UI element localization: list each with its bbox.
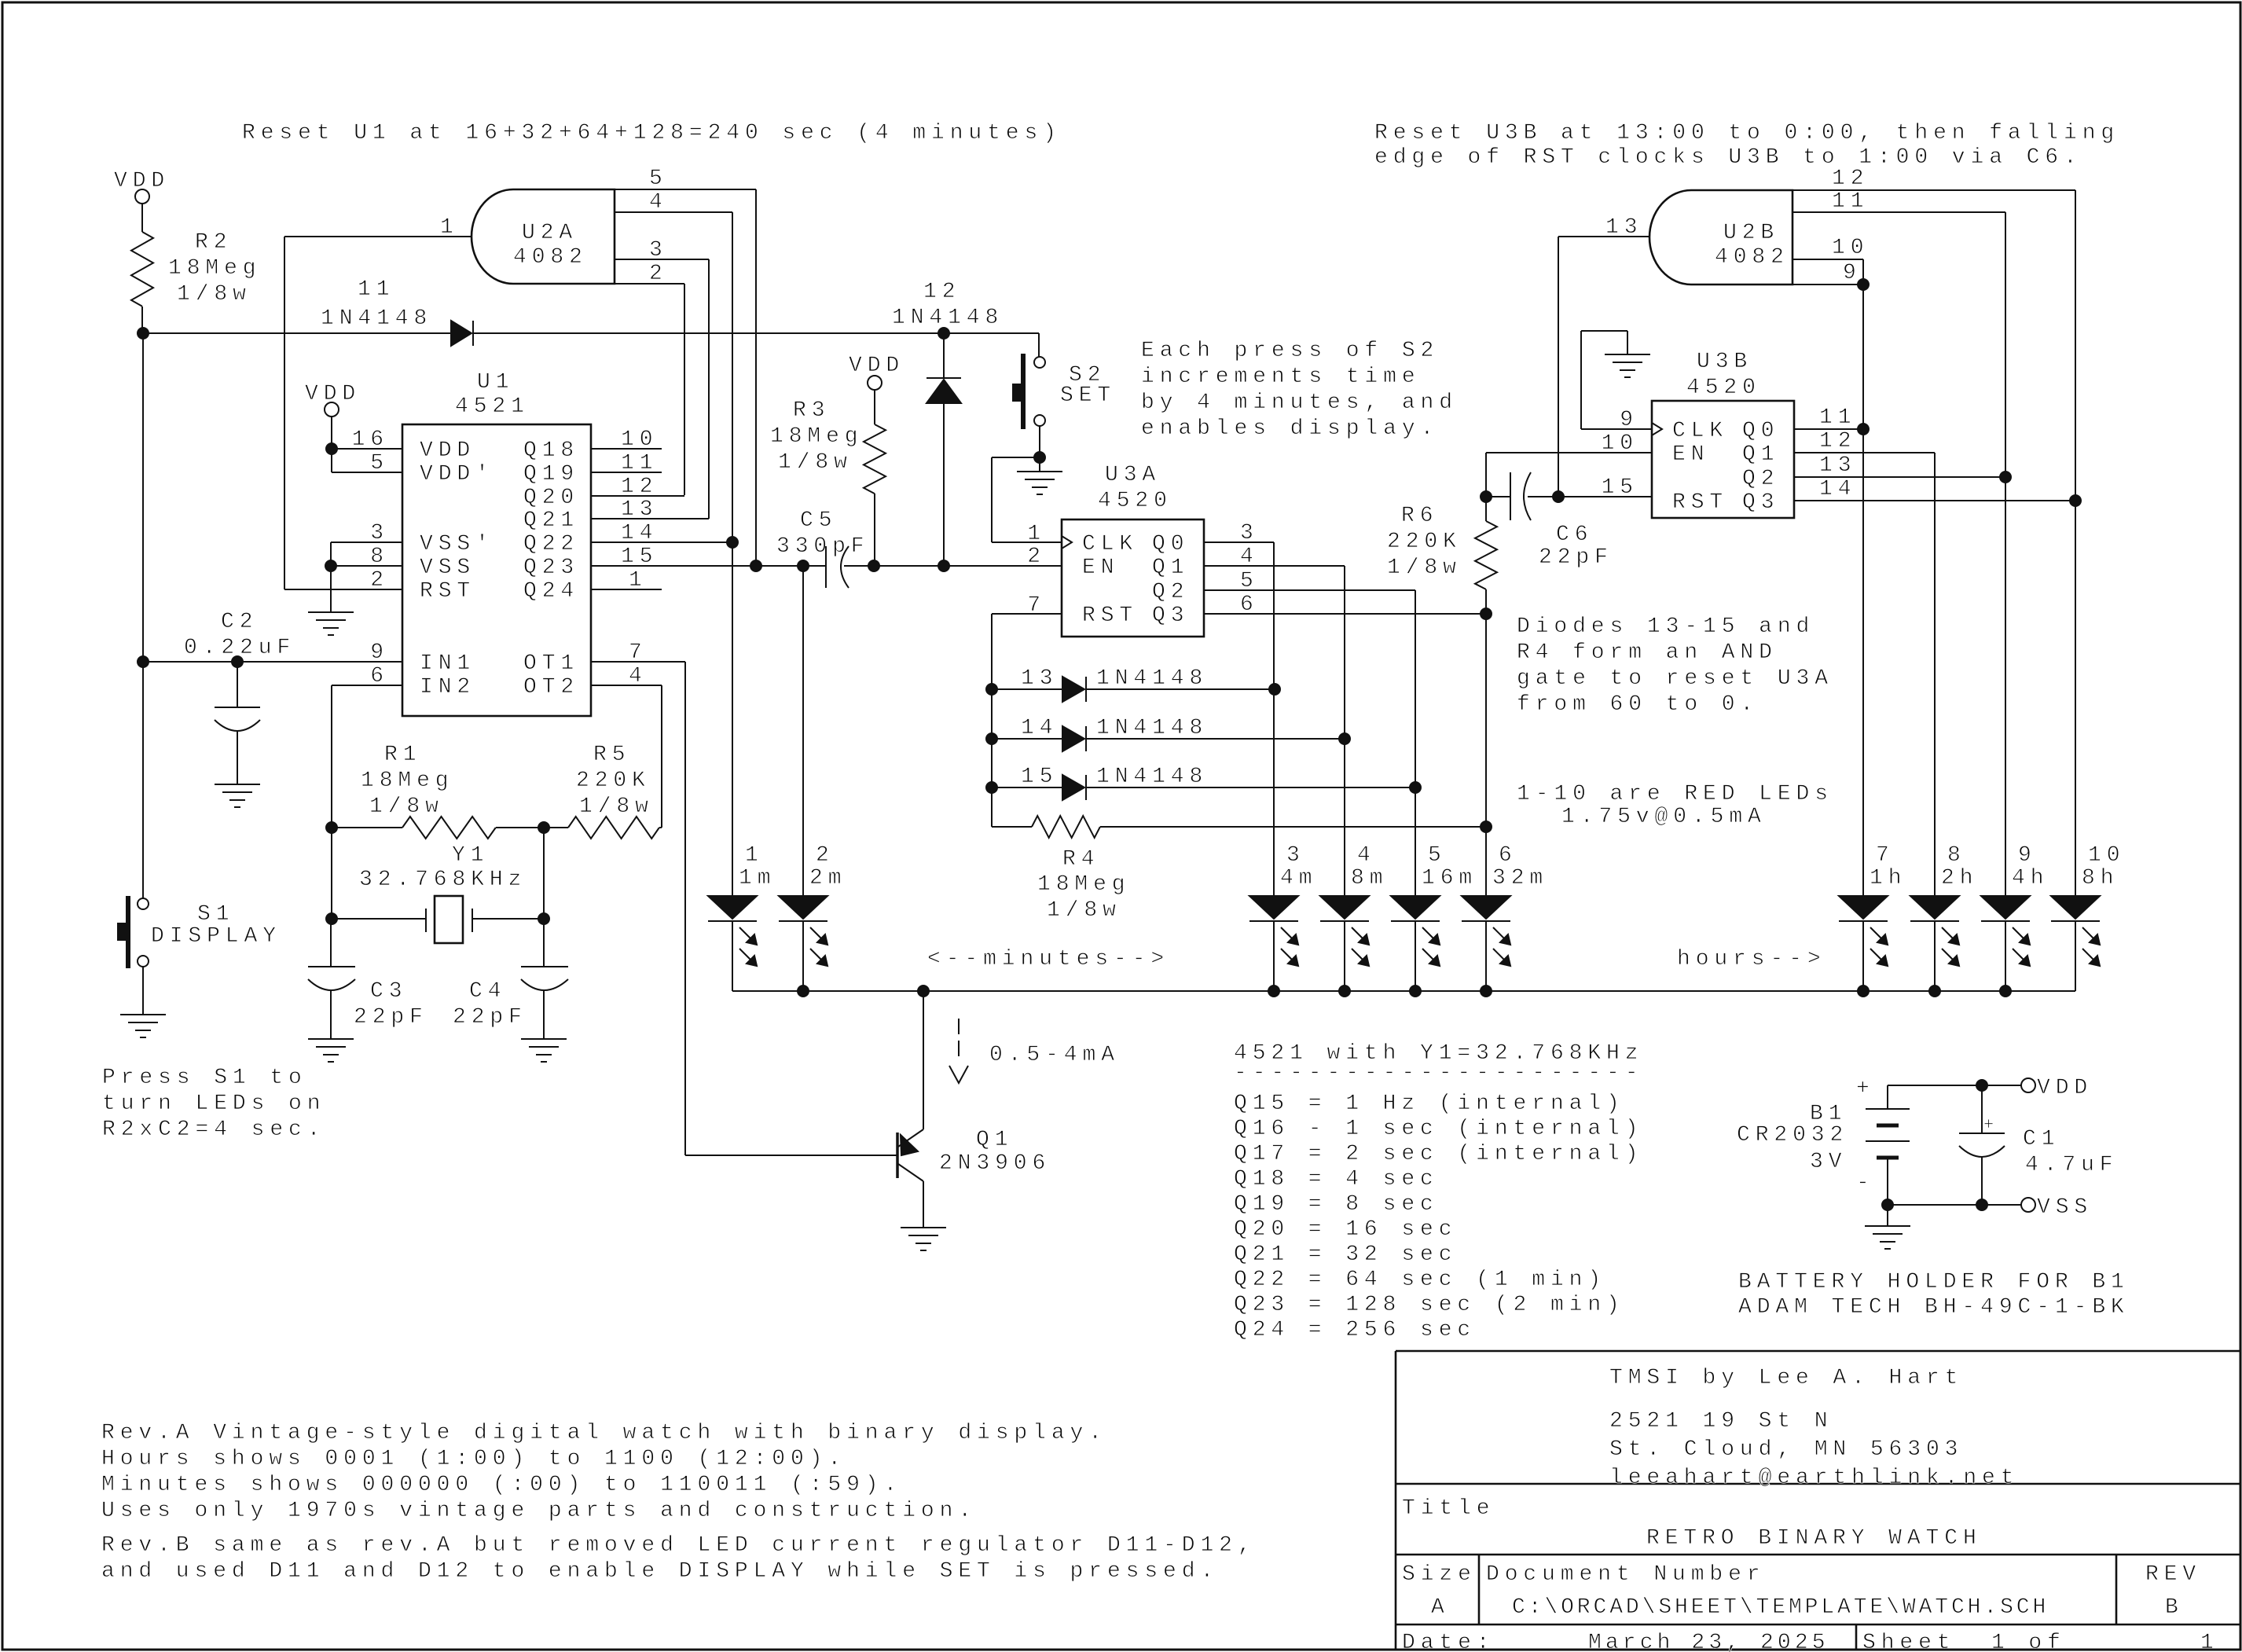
svg-text:14: 14 xyxy=(621,521,658,545)
svg-text:+: + xyxy=(1983,1115,1999,1135)
U1 pin 6 IN2 xyxy=(332,685,402,686)
op-amp U2A 4082 AND gate (mirrored) xyxy=(472,189,615,284)
svg-text:15: 15 xyxy=(1602,475,1638,500)
wire U2A p3 to U1 Q21 xyxy=(708,259,710,519)
svg-text:Q24 = 256 sec: Q24 = 256 sec xyxy=(1234,1318,1476,1342)
LED cathode bus (minutes+hours) xyxy=(732,921,733,991)
svg-text:RST: RST xyxy=(420,579,475,604)
svg-text:March 23, 2025: March 23, 2025 xyxy=(1588,1631,1829,1652)
svg-text:BATTERY HOLDER FOR B1: BATTERY HOLDER FOR B1 xyxy=(1738,1270,2130,1294)
U1 pin 16 xyxy=(332,448,402,450)
svg-text:18Meg: 18Meg xyxy=(361,769,454,793)
LED 7 (1h) xyxy=(1839,843,1906,966)
svg-text:3: 3 xyxy=(1286,843,1305,868)
svg-text:1-10 are RED LEDs: 1-10 are RED LEDs xyxy=(1517,782,1833,806)
svg-text:IN2: IN2 xyxy=(420,675,475,699)
svg-text:1: 1 xyxy=(745,843,764,868)
svg-text:32.768KHz: 32.768KHz xyxy=(359,868,527,892)
U1 pin 1 xyxy=(591,589,662,590)
U1 pin 13 xyxy=(591,518,709,519)
ground (U3B CLK) xyxy=(1605,354,1650,355)
diode 15 1N4148 xyxy=(992,787,1062,788)
svg-text:1.75v@0.5mA: 1.75v@0.5mA xyxy=(1561,805,1767,829)
svg-text:10: 10 xyxy=(1602,431,1638,456)
svg-text:2: 2 xyxy=(816,843,835,868)
svg-text:CLK: CLK xyxy=(1672,419,1728,443)
svg-text:1N4148: 1N4148 xyxy=(1096,666,1208,691)
svg-text:gate to reset U3A: gate to reset U3A xyxy=(1517,666,1833,691)
svg-text:Each press of S2: Each press of S2 xyxy=(1141,339,1439,363)
svg-text:Y1: Y1 xyxy=(452,843,489,868)
svg-text:----------------------: ---------------------- xyxy=(1234,1061,1643,1085)
svg-text:from 60 to 0.: from 60 to 0. xyxy=(1517,692,1759,717)
svg-text:Date:: Date: xyxy=(1402,1631,1495,1652)
U3B pin 13 Q2 xyxy=(1794,476,2005,478)
svg-text:RETRO BINARY WATCH: RETRO BINARY WATCH xyxy=(1646,1526,1982,1551)
svg-text:RST: RST xyxy=(1082,604,1138,628)
diode 11 1N4148 xyxy=(451,321,472,346)
svg-text:4: 4 xyxy=(1357,843,1376,868)
svg-text:C4: C4 xyxy=(469,979,506,1004)
svg-text:330pF: 330pF xyxy=(776,534,870,559)
U1 pin 5 xyxy=(331,449,332,472)
wire left rail down to S1 xyxy=(142,333,144,898)
power VSS terminal xyxy=(2021,1198,2035,1212)
svg-text:C2: C2 xyxy=(221,610,258,634)
svg-text:Q1: Q1 xyxy=(976,1128,1013,1152)
svg-text:R6: R6 xyxy=(1401,504,1438,528)
U1 pin 12 xyxy=(591,495,684,497)
LED 6 (32m) xyxy=(1462,843,1548,966)
svg-text:C5: C5 xyxy=(800,508,837,533)
svg-text:8h: 8h xyxy=(2082,866,2119,890)
svg-text:VDD: VDD xyxy=(849,354,905,378)
node junction R2/C2 wire xyxy=(138,328,149,339)
svg-text:Size: Size xyxy=(1402,1562,1477,1587)
svg-text:1N4148: 1N4148 xyxy=(1096,716,1208,740)
ground (S1) xyxy=(120,1014,166,1015)
svg-text:0.22uF: 0.22uF xyxy=(184,636,295,660)
svg-text:1N4148: 1N4148 xyxy=(321,307,432,331)
svg-text:VDD': VDD' xyxy=(420,462,494,486)
U3A pin5 Q2 to LED5 xyxy=(1204,589,1415,591)
svg-text:Reset U1 at 16+32+64+128=240 s: Reset U1 at 16+32+64+128=240 sec (4 minu… xyxy=(242,121,1062,145)
svg-text:22pF: 22pF xyxy=(354,1005,428,1030)
svg-text:enables display.: enables display. xyxy=(1141,417,1439,441)
wire B1- to VSS xyxy=(1888,1204,2021,1206)
svg-text:EN: EN xyxy=(1082,556,1119,580)
svg-text:Q18 = 4 sec: Q18 = 4 sec xyxy=(1234,1167,1439,1191)
svg-text:10: 10 xyxy=(621,428,658,452)
svg-text:5: 5 xyxy=(649,167,668,191)
U1 pin 15 (to C5 / U3A EN) xyxy=(591,565,826,567)
svg-text:Document Number: Document Number xyxy=(1486,1562,1766,1587)
ground (C3) xyxy=(308,1038,354,1040)
svg-text:220K: 220K xyxy=(576,769,651,793)
U2B pin 9 xyxy=(1792,284,1863,285)
svg-text:11: 11 xyxy=(358,277,394,302)
wire U2B 9/10 to U3B Q0 and LED7 xyxy=(1862,285,1864,896)
svg-text:turn LEDs on: turn LEDs on xyxy=(102,1092,325,1116)
svg-text:IN1: IN1 xyxy=(420,652,475,676)
ground (C2) xyxy=(215,784,260,785)
svg-text:1/8w: 1/8w xyxy=(177,282,251,307)
svg-text:2h: 2h xyxy=(1941,866,1978,890)
svg-text:4h: 4h xyxy=(2012,866,2049,890)
svg-text:Q19: Q19 xyxy=(523,462,579,486)
svg-text:Hours shows 0001 (1:00) to 110: Hours shows 0001 (1:00) to 1100 (12:00). xyxy=(101,1447,846,1471)
U3B pin 9 CLK to ground xyxy=(1581,428,1652,430)
svg-text:Rev.B same as rev.A but remove: Rev.B same as rev.A but removed LED curr… xyxy=(101,1533,1257,1558)
svg-text:6: 6 xyxy=(1240,593,1259,617)
U2A pin 3 stub xyxy=(615,259,709,260)
svg-text:1: 1 xyxy=(2200,1631,2219,1652)
wire U2A p2 to U1 Q20 xyxy=(684,284,685,495)
U3B pin 11 Q0 xyxy=(1794,428,1863,430)
svg-text:CR2032: CR2032 xyxy=(1737,1123,1848,1147)
wire U2B p11 to LED9 xyxy=(2005,212,2006,896)
U2B pin 10 xyxy=(1792,259,1863,260)
ground (Q1) xyxy=(901,1227,946,1228)
svg-text:1/8w: 1/8w xyxy=(778,450,853,475)
svg-text:Rev.A Vintage-style digital wa: Rev.A Vintage-style digital watch with b… xyxy=(101,1421,1107,1445)
svg-text:1N4148: 1N4148 xyxy=(892,306,1004,330)
svg-text:C1: C1 xyxy=(2023,1127,2060,1151)
op-amp U2B 4082 AND gate (mirrored) xyxy=(1649,190,1792,285)
svg-text:Q22: Q22 xyxy=(523,532,579,556)
ground (U1 VSS) xyxy=(330,566,332,612)
svg-text:4520: 4520 xyxy=(1686,376,1761,400)
U1 pin 11 xyxy=(591,472,662,473)
svg-text:1h: 1h xyxy=(1870,866,1906,890)
wire S2 to U3A CLK xyxy=(992,457,1040,458)
svg-text:VSS: VSS xyxy=(2037,1195,2093,1220)
svg-text:Uses only 1970s vintage parts: Uses only 1970s vintage parts and constr… xyxy=(101,1499,977,1523)
svg-text:4: 4 xyxy=(629,664,648,688)
svg-text:U2B: U2B xyxy=(1723,221,1779,245)
wire U3B EN to R6 top xyxy=(1486,452,1652,453)
svg-text:3V: 3V xyxy=(1810,1150,1847,1174)
svg-text:U2A: U2A xyxy=(522,221,578,245)
ground (C4) xyxy=(521,1038,567,1040)
power VDD terminal xyxy=(2021,1078,2035,1092)
svg-text:TMSI by Lee A. Hart: TMSI by Lee A. Hart xyxy=(1609,1366,1963,1390)
svg-text:Q15 = 1 Hz (internal): Q15 = 1 Hz (internal) xyxy=(1234,1092,1625,1116)
svg-text:2521 19 St N: 2521 19 St N xyxy=(1609,1409,1833,1434)
IC U3A 4520 minutes counter xyxy=(1062,519,1204,637)
svg-text:leeahart@earthlink.net: leeahart@earthlink.net xyxy=(1609,1466,2019,1490)
LED 3 (4m) xyxy=(1249,843,1317,966)
wire R2 to junction xyxy=(141,307,143,333)
U2B pin 12 xyxy=(1792,189,2075,191)
svg-text:U3B: U3B xyxy=(1697,350,1752,374)
svg-text:0.5-4mA: 0.5-4mA xyxy=(989,1043,1120,1067)
wire U2A p4 to U1 Q22 xyxy=(732,212,733,542)
svg-text:1N4148: 1N4148 xyxy=(1096,765,1208,789)
diode 14 1N4148 xyxy=(992,738,1062,740)
svg-text:Q21: Q21 xyxy=(523,508,579,533)
svg-text:Q20: Q20 xyxy=(523,486,579,510)
svg-text:Q2: Q2 xyxy=(1152,580,1189,604)
svg-text:2: 2 xyxy=(649,262,668,286)
wire U2A pin1 to U1 RST xyxy=(284,236,472,237)
IC U1 4521 oscillator/divider xyxy=(402,424,591,716)
svg-text:SET: SET xyxy=(1060,384,1116,408)
svg-text:Diodes 13-15 and: Diodes 13-15 and xyxy=(1517,615,1815,639)
svg-text:12: 12 xyxy=(621,475,658,499)
IC U3B 4520 hours counter xyxy=(1652,401,1794,518)
svg-text:VDD: VDD xyxy=(2037,1076,2093,1100)
svg-text:18Meg: 18Meg xyxy=(168,256,262,281)
svg-text:1 of: 1 of xyxy=(1991,1631,2066,1652)
svg-text:Q18: Q18 xyxy=(523,439,579,463)
resistor R1 18Meg xyxy=(332,827,402,828)
svg-text:7: 7 xyxy=(629,641,648,665)
diode 13 1N4148 xyxy=(992,688,1062,690)
svg-text:C3: C3 xyxy=(370,979,407,1004)
svg-text:12: 12 xyxy=(1819,429,1856,453)
svg-text:REV: REV xyxy=(2145,1562,2201,1587)
U1 pin 4 OT2 xyxy=(591,685,662,686)
U3A pin4 Q1 to LED4 xyxy=(1204,565,1345,567)
svg-text:2: 2 xyxy=(1027,545,1046,569)
LED 2 (2m) xyxy=(779,843,846,966)
U1 pin 7 OT1 xyxy=(591,661,685,663)
wire Q22 node down to LED1 xyxy=(732,542,733,896)
svg-text:16: 16 xyxy=(352,428,389,452)
LED 5 (16m) xyxy=(1391,843,1477,966)
U2A pin 2 stub xyxy=(615,283,684,285)
wire OT2 down to R5 xyxy=(661,685,662,828)
wire horizontal to diode 11 xyxy=(143,332,451,334)
svg-text:Q2: Q2 xyxy=(1742,467,1779,491)
svg-text:5: 5 xyxy=(1240,569,1259,593)
LED 4 (8m) xyxy=(1320,843,1388,966)
svg-text:Q21 = 32 sec: Q21 = 32 sec xyxy=(1234,1243,1457,1267)
svg-text:Q0: Q0 xyxy=(1152,532,1189,556)
svg-text:8: 8 xyxy=(1947,843,1966,868)
svg-text:R4 form an AND: R4 form an AND xyxy=(1517,641,1778,665)
svg-text:3: 3 xyxy=(1240,521,1259,545)
svg-text:11: 11 xyxy=(1819,406,1856,430)
svg-text:12: 12 xyxy=(923,280,960,304)
svg-text:9: 9 xyxy=(1620,408,1638,432)
svg-text:2: 2 xyxy=(370,568,389,593)
svg-text:St. Cloud, MN 56303: St. Cloud, MN 56303 xyxy=(1609,1437,1963,1462)
svg-text:1/8w: 1/8w xyxy=(579,795,654,819)
svg-text:Q20 = 16 sec: Q20 = 16 sec xyxy=(1234,1217,1457,1242)
svg-text:11: 11 xyxy=(621,451,658,475)
svg-text:8m: 8m xyxy=(1351,866,1388,890)
resistor R2 18Meg xyxy=(131,232,153,307)
svg-text:6: 6 xyxy=(1499,843,1517,868)
U1 pin 9 IN1 xyxy=(143,661,402,663)
svg-text:12: 12 xyxy=(1832,167,1869,191)
svg-text:1: 1 xyxy=(629,568,648,593)
svg-text:DISPLAY: DISPLAY xyxy=(151,924,281,949)
wire U2B p12 to LED10 xyxy=(2075,190,2076,896)
U1 pin 10 xyxy=(591,448,662,450)
svg-text:4: 4 xyxy=(649,190,668,215)
resistor R3 18Meg xyxy=(864,424,886,494)
U3A RST pin7 wire to diode AND xyxy=(992,613,1062,615)
wire U2A p5 to U1 Q23 xyxy=(755,189,757,566)
svg-text:3: 3 xyxy=(649,238,668,262)
U1 pin 14 xyxy=(591,541,732,543)
svg-text:14: 14 xyxy=(1021,716,1058,740)
svg-text:RST: RST xyxy=(1672,490,1728,515)
switch S2 SET xyxy=(1038,333,1040,357)
capacitor C3 22pF xyxy=(330,919,332,967)
svg-text:10: 10 xyxy=(1832,236,1869,260)
svg-text:OT1: OT1 xyxy=(523,652,579,676)
svg-text:16m: 16m xyxy=(1422,866,1477,890)
svg-text:13: 13 xyxy=(1605,215,1642,240)
svg-text:R4: R4 xyxy=(1062,847,1099,872)
title block xyxy=(1396,1351,2240,1650)
svg-text:increments time: increments time xyxy=(1141,365,1421,389)
svg-text:<--minutes-->: <--minutes--> xyxy=(927,947,1169,971)
svg-text:C:\ORCAD\SHEET\TEMPLATE\WATCH.: C:\ORCAD\SHEET\TEMPLATE\WATCH.SCH xyxy=(1512,1595,2049,1620)
svg-text:13: 13 xyxy=(1819,453,1856,478)
svg-text:and used D11 and D12 to enable: and used D11 and D12 to enable DISPLAY w… xyxy=(101,1559,1219,1584)
svg-text:Reset U3B at 13:00 to 0:00, th: Reset U3B at 13:00 to 0:00, then falling xyxy=(1374,121,2119,145)
svg-text:Q17 = 2 sec (internal): Q17 = 2 sec (internal) xyxy=(1234,1142,1643,1166)
resistor R5 220K xyxy=(568,817,659,839)
svg-text:9: 9 xyxy=(2018,843,2037,868)
U3B pin 14 Q3 xyxy=(1794,500,2075,501)
U1 pin 8 xyxy=(330,542,332,566)
LED 1 (1m) xyxy=(708,843,776,966)
svg-text:22pF: 22pF xyxy=(1539,545,1613,570)
svg-text:Minutes shows 000000 (:00) to: Minutes shows 000000 (:00) to 110011 (:5… xyxy=(101,1473,902,1497)
wire diode 11 to S2 xyxy=(473,332,1039,334)
U1 pin 3 xyxy=(331,541,402,543)
svg-text:9: 9 xyxy=(370,641,389,665)
svg-text:5: 5 xyxy=(1428,843,1447,868)
svg-text:2m: 2m xyxy=(809,866,846,890)
svg-text:by 4 minutes, and: by 4 minutes, and xyxy=(1141,391,1458,415)
svg-text:4082: 4082 xyxy=(1715,245,1789,270)
svg-text:Q19 = 8 sec: Q19 = 8 sec xyxy=(1234,1192,1439,1217)
svg-text:B: B xyxy=(2165,1595,2184,1620)
svg-text:22pF: 22pF xyxy=(453,1005,527,1030)
svg-text:U3A: U3A xyxy=(1105,463,1161,487)
svg-text:hours-->: hours--> xyxy=(1677,947,1826,971)
svg-text:18Meg: 18Meg xyxy=(770,424,864,449)
svg-text:EN: EN xyxy=(1672,442,1709,467)
svg-text:8: 8 xyxy=(370,545,389,569)
U3B pin 12 Q1 to LED8 xyxy=(1794,452,1935,453)
svg-text:U1: U1 xyxy=(477,370,514,395)
resistor R4 18Meg xyxy=(991,787,993,827)
svg-text:15: 15 xyxy=(1021,765,1058,789)
svg-text:Q23: Q23 xyxy=(523,556,579,580)
svg-text:1/8w: 1/8w xyxy=(369,795,444,819)
svg-text:R5: R5 xyxy=(593,743,630,767)
svg-text:OT2: OT2 xyxy=(523,675,579,699)
U2B pin 11 xyxy=(1792,211,2005,213)
svg-text:4: 4 xyxy=(1240,545,1259,569)
svg-text:1: 1 xyxy=(440,215,459,240)
svg-text:13: 13 xyxy=(621,497,658,522)
LED 9 (4h) xyxy=(1981,843,2049,966)
svg-text:Sheet: Sheet xyxy=(1862,1631,1956,1652)
svg-text:7: 7 xyxy=(1876,843,1895,868)
wire B1+ to VDD xyxy=(1888,1085,2021,1086)
svg-text:-: - xyxy=(1856,1171,1875,1195)
LED 10 (8h) xyxy=(2051,843,2125,966)
U2A pin 5 stub xyxy=(615,189,756,190)
svg-text:2N3906: 2N3906 xyxy=(939,1151,1051,1176)
svg-text:18Meg: 18Meg xyxy=(1037,872,1131,897)
svg-text:5: 5 xyxy=(370,451,389,475)
svg-text:1: 1 xyxy=(1027,522,1046,546)
wire Q23 node down to LED2 xyxy=(802,566,804,896)
svg-text:Title: Title xyxy=(1402,1496,1495,1521)
svg-text:10: 10 xyxy=(2088,843,2125,868)
svg-text:4.7uF: 4.7uF xyxy=(2025,1153,2119,1177)
wire VDD to R2 xyxy=(141,204,143,232)
svg-text:6: 6 xyxy=(370,664,389,688)
svg-text:11: 11 xyxy=(1832,189,1869,214)
svg-text:Q0: Q0 xyxy=(1742,419,1779,443)
current arrow 0.5-4mA xyxy=(958,1019,960,1034)
svg-text:CLK: CLK xyxy=(1082,532,1138,556)
svg-text:4521: 4521 xyxy=(455,395,530,419)
svg-text:Q22 = 64 sec (1 min): Q22 = 64 sec (1 min) xyxy=(1234,1268,1606,1292)
U2A pin 4 stub xyxy=(615,211,732,213)
svg-text:R2: R2 xyxy=(195,230,232,255)
svg-text:ADAM TECH BH-49C-1-BK: ADAM TECH BH-49C-1-BK xyxy=(1738,1295,2130,1320)
svg-text:R2xC2=4 sec.: R2xC2=4 sec. xyxy=(102,1118,325,1142)
svg-text:13: 13 xyxy=(1021,666,1058,691)
svg-text:Q1: Q1 xyxy=(1742,442,1779,467)
svg-text:Q23 = 128 sec (2 min): Q23 = 128 sec (2 min) xyxy=(1234,1293,1625,1317)
svg-text:220K: 220K xyxy=(1387,530,1462,554)
U3A pin3 Q0 to LED3 xyxy=(1204,541,1274,543)
U3A pin6 Q3 to LED6/R6 xyxy=(1204,613,1486,615)
svg-text:VSS: VSS xyxy=(420,556,475,580)
capacitor C4 22pF xyxy=(543,919,545,967)
svg-text:Press S1 to: Press S1 to xyxy=(102,1066,307,1090)
svg-text:C6: C6 xyxy=(1556,523,1593,547)
svg-text:15: 15 xyxy=(621,545,658,569)
svg-text:Q24: Q24 xyxy=(523,579,579,604)
svg-text:R3: R3 xyxy=(793,398,830,423)
svg-text:32m: 32m xyxy=(1492,866,1548,890)
ground (S2) xyxy=(1017,471,1062,472)
svg-text:4082: 4082 xyxy=(513,245,588,270)
svg-text:4m: 4m xyxy=(1280,866,1317,890)
svg-text:Q3: Q3 xyxy=(1152,604,1189,628)
svg-text:1/8w: 1/8w xyxy=(1387,556,1462,580)
svg-text:3: 3 xyxy=(370,521,389,545)
svg-text:1/8w: 1/8w xyxy=(1047,898,1121,923)
svg-text:VDD: VDD xyxy=(420,439,475,463)
svg-text:A: A xyxy=(1431,1595,1450,1620)
svg-text:R1: R1 xyxy=(384,743,421,767)
svg-text:14: 14 xyxy=(1819,477,1856,501)
ground (B1) xyxy=(1887,1205,1888,1226)
svg-text:+: + xyxy=(1856,1077,1875,1101)
LED 8 (2h) xyxy=(1910,843,1978,966)
svg-text:Q1: Q1 xyxy=(1152,556,1189,580)
wire U2B p13 to U3B RST xyxy=(1558,237,1559,497)
svg-text:Q16 - 1 sec (internal): Q16 - 1 sec (internal) xyxy=(1234,1117,1643,1141)
svg-text:1m: 1m xyxy=(739,866,776,890)
svg-text:Q3: Q3 xyxy=(1742,490,1779,515)
